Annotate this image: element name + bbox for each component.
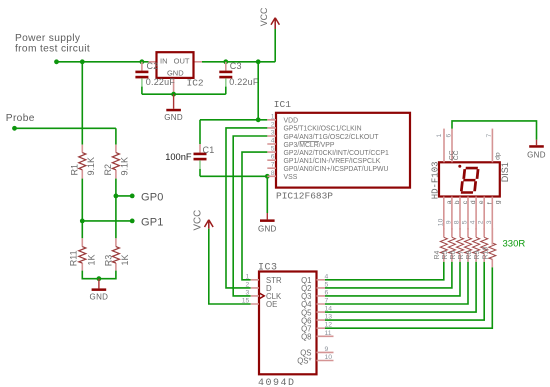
svg-text:2: 2 <box>478 220 485 224</box>
svg-text:Q8: Q8 <box>301 333 311 342</box>
svg-text:CC: CC <box>453 150 460 160</box>
junction: ground tie <box>97 276 102 281</box>
pins IC1 1-8 stubs <box>267 120 276 177</box>
pin letters display bottom <box>446 200 502 204</box>
wire: R1 top vertical from power net <box>81 62 83 145</box>
svg-text:R1: R1 <box>70 164 80 176</box>
svg-text:R9: R9 <box>474 250 481 259</box>
junction: IC2 GND <box>171 92 176 97</box>
svg-text:R10: R10 <box>482 247 489 260</box>
svg-text:4: 4 <box>271 138 275 145</box>
pin OUT stub <box>194 61 203 63</box>
display DIS1 HD-F103 <box>430 161 510 199</box>
wire: VDD branch down to IC1 pin 1 <box>257 62 259 120</box>
junction: VSS pin8 <box>265 174 270 179</box>
pins IC3 right stubs <box>317 280 326 328</box>
pin labels display top: CC CC dp <box>448 150 501 160</box>
svg-text:10: 10 <box>437 218 444 226</box>
wire: Q5 to R8 <box>325 262 476 312</box>
resistor R9 <box>474 228 488 262</box>
svg-text:Power supply: Power supply <box>15 33 81 44</box>
ground: below IC1 VSS <box>258 213 277 234</box>
svg-text:dp: dp <box>495 152 502 160</box>
svg-text:7: 7 <box>486 134 493 138</box>
svg-text:OE: OE <box>266 300 277 309</box>
pin numbers IC3 left <box>242 273 250 304</box>
regulator IC2 <box>149 52 204 94</box>
clock triangle IC3 <box>259 293 264 299</box>
svg-text:DIS1: DIS1 <box>500 162 510 182</box>
resistor R2 9.1K <box>103 145 130 179</box>
wire: IC1 pin1 horizontal <box>200 119 267 121</box>
svg-text:7: 7 <box>271 162 275 169</box>
svg-text:f: f <box>486 202 493 204</box>
pin 6 display top (CC) <box>451 129 453 163</box>
wire: regulator ground rail <box>142 93 226 95</box>
svg-text:VDD: VDD <box>284 118 299 125</box>
capacitor C2 <box>135 61 175 94</box>
svg-text:g: g <box>494 200 501 204</box>
svg-text:3: 3 <box>246 289 250 296</box>
svg-text:IC2: IC2 <box>187 78 204 89</box>
ground: below IC2 <box>164 94 183 122</box>
svg-text:5: 5 <box>271 146 275 153</box>
svg-text:9.1K: 9.1K <box>86 157 96 176</box>
pins IC3 unconnected stubs Q8 QS QS* <box>317 336 334 360</box>
svg-text:C1: C1 <box>203 145 215 155</box>
svg-text:C3: C3 <box>230 61 242 71</box>
junction: C3 top <box>223 59 228 64</box>
svg-text:1: 1 <box>436 134 443 138</box>
svg-text:C2: C2 <box>147 61 159 71</box>
pin 7 display top (dp) <box>491 129 493 163</box>
svg-text:R2: R2 <box>103 164 113 176</box>
svg-text:100nF: 100nF <box>165 152 192 162</box>
svg-text:3: 3 <box>486 220 493 224</box>
pin numbers IC1 <box>271 113 275 177</box>
wire: resistor bottoms to common ground <box>82 271 116 279</box>
pin numbers display top <box>436 134 493 138</box>
svg-text:GND: GND <box>167 68 184 77</box>
capacitor C3 <box>219 61 259 94</box>
svg-text:GP5/T1CKI/OSC1/CLKIN: GP5/T1CKI/OSC1/CLKIN <box>284 126 362 133</box>
junction: C2 top on power net <box>140 59 145 64</box>
svg-text:1: 1 <box>271 113 275 120</box>
junction: R1 branch on power net <box>80 59 85 64</box>
wire: Q6 to R9 <box>325 262 484 320</box>
capacitor C1 100nF <box>165 120 214 177</box>
svg-text:IN: IN <box>160 56 168 65</box>
svg-text:GND: GND <box>90 293 109 302</box>
svg-text:9: 9 <box>445 220 452 224</box>
ground: below R11/R3 <box>90 279 109 302</box>
wire: Q1 to R4 <box>325 262 444 280</box>
svg-text:GP2/AN2/T0CKI/INT/COUT/CCP1: GP2/AN2/T0CKI/INT/COUT/CCP1 <box>284 150 389 157</box>
seven segment digit 8 <box>460 167 480 194</box>
resistor R8 <box>466 228 480 262</box>
svg-text:2: 2 <box>271 121 275 128</box>
resistor R6 <box>450 228 464 262</box>
svg-text:1K: 1K <box>86 254 96 265</box>
svg-text:OUT: OUT <box>174 56 190 65</box>
svg-text:GP4/AN3/T1G/OSC2/CLKOUT: GP4/AN3/T1G/OSC2/CLKOUT <box>284 134 380 141</box>
svg-text:VCC: VCC <box>192 210 203 231</box>
svg-text:GND: GND <box>258 225 277 234</box>
pin 1 display top (CC) <box>443 129 445 163</box>
wire: Q2 to R5 <box>325 262 452 288</box>
svg-text:10: 10 <box>325 354 333 361</box>
wire: GP1 node down to R11 <box>81 221 83 238</box>
svg-text:4094D: 4094D <box>258 378 296 387</box>
svg-text:3: 3 <box>271 130 275 137</box>
svg-text:b: b <box>454 200 461 204</box>
shift register IC3 4094D <box>258 262 317 387</box>
pin names IC1 <box>284 118 389 182</box>
node: GP0 stub <box>114 191 164 203</box>
power symbol: VCC (middle, for OE) <box>192 210 213 231</box>
svg-text:e: e <box>478 200 485 204</box>
svg-text:from test circuit: from test circuit <box>15 44 90 55</box>
svg-text:GND: GND <box>527 151 546 160</box>
wire: R2 top vertical from probe <box>115 128 117 144</box>
wire: VSS down <box>266 176 268 213</box>
resistor R7 <box>458 228 472 262</box>
svg-text:0.22uF: 0.22uF <box>229 77 259 87</box>
svg-text:GND: GND <box>164 113 183 122</box>
svg-text:GP1: GP1 <box>141 216 164 228</box>
svg-text:GP1/AN1/CIN-/VREF/ICSPCLK: GP1/AN1/CIN-/VREF/ICSPCLK <box>284 158 381 165</box>
pin IN stub <box>149 61 157 63</box>
svg-text:GP0: GP0 <box>141 191 164 203</box>
label: Power supply from test circuit <box>15 33 90 55</box>
svg-text:R5: R5 <box>442 250 449 259</box>
pin GND stub <box>173 78 175 94</box>
svg-text:Probe: Probe <box>6 113 35 124</box>
wire: R1 bottom to GP1 node <box>81 179 83 221</box>
svg-text:9: 9 <box>325 346 329 353</box>
wire: display CC to GND <box>452 121 537 140</box>
svg-text:R7: R7 <box>458 250 465 259</box>
resistor R1 9.1K <box>70 145 97 179</box>
resistor R3 1K <box>104 238 130 270</box>
node: power entry dot <box>54 59 59 64</box>
junction: VDD at pin1 <box>256 117 261 122</box>
svg-text:9.1K: 9.1K <box>120 157 130 176</box>
pins display bottom a-g <box>444 197 493 245</box>
decimal point of digit <box>458 165 461 168</box>
wire: R2 bottom to GP0 node and on to R3 <box>115 179 117 239</box>
svg-text:1K: 1K <box>120 254 130 265</box>
pins IC3 left stubs <box>251 280 259 304</box>
svg-text:8: 8 <box>454 220 461 224</box>
svg-text:d: d <box>470 200 477 204</box>
svg-text:a: a <box>446 200 453 204</box>
wire: IC1 pin5 GP2 to IC3 STR <box>242 152 267 280</box>
wire: C1 bottom to VSS <box>200 175 267 177</box>
svg-text:GP3/MCLR/VPP: GP3/MCLR/VPP <box>284 142 335 149</box>
resistor R4 <box>434 228 448 262</box>
resistor R5 <box>442 228 456 262</box>
svg-text:R3: R3 <box>104 255 114 267</box>
pin numbers IC3 right <box>325 273 333 361</box>
op IC1 PIC12F683P <box>274 99 410 201</box>
node: GP1 stub <box>80 216 164 228</box>
wire: probe horizontal <box>15 127 116 129</box>
pin names IC3 <box>266 276 312 366</box>
svg-text:IC1: IC1 <box>274 99 291 110</box>
svg-text:R6: R6 <box>450 250 457 259</box>
svg-text:R8: R8 <box>466 250 473 259</box>
wire: IC1 pin3 GP4 to IC3 CLK <box>233 136 267 296</box>
svg-text:VSS: VSS <box>284 174 298 181</box>
wire: Q7 to R10 <box>325 267 492 328</box>
svg-text:8: 8 <box>271 170 275 177</box>
resistor R10 (shifted lower) <box>482 228 496 267</box>
wire: Q3 to R6 <box>325 262 460 296</box>
svg-text:6: 6 <box>271 154 275 161</box>
ground: right of display <box>527 140 546 160</box>
svg-text:6: 6 <box>445 134 452 138</box>
wire: IC1 pin2 GP5 to IC3 D <box>226 128 267 288</box>
svg-text:4: 4 <box>470 220 477 224</box>
wire: IC2 OUT to VCC net <box>202 61 275 63</box>
svg-text:HD-F103: HD-F103 <box>430 161 440 199</box>
svg-text:1: 1 <box>246 273 250 280</box>
svg-text:5: 5 <box>462 220 469 224</box>
svg-text:R4: R4 <box>434 250 441 259</box>
wire: Q4 to R7 <box>325 262 468 304</box>
junction: VDD branch <box>256 59 261 64</box>
svg-text:2: 2 <box>246 281 250 288</box>
svg-text:QS*: QS* <box>297 357 311 366</box>
node: probe entry dot <box>12 126 17 131</box>
svg-text:c: c <box>462 200 469 204</box>
svg-text:11: 11 <box>325 330 332 337</box>
svg-text:R11: R11 <box>68 250 78 266</box>
wire: VCC to IC3 OE <box>209 229 251 304</box>
svg-text:GP0/AN0/CIN+/ICSPDAT/ULPWU: GP0/AN0/CIN+/ICSPDAT/ULPWU <box>284 166 389 173</box>
svg-text:15: 15 <box>242 298 250 305</box>
svg-text:PIC12F683P: PIC12F683P <box>276 190 333 201</box>
power symbol: VCC (top) <box>259 7 279 62</box>
svg-text:VCC: VCC <box>259 7 269 26</box>
resistor R11 1K <box>68 238 96 270</box>
pin numbers display bottom <box>437 218 493 226</box>
wire: power net top horizontal <box>57 61 149 63</box>
svg-text:330R: 330R <box>503 239 526 250</box>
svg-text:0.22uF: 0.22uF <box>146 77 176 87</box>
